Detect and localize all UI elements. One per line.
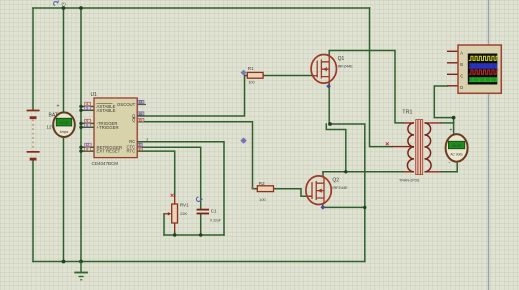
- svg-text:0.22uF: 0.22uF: [210, 219, 221, 223]
- resistor R2: [251, 181, 273, 202]
- wire secondary top to voltmeter: [441, 122, 454, 124]
- transformer TR1: [386, 110, 441, 183]
- svg-text:+0.00: +0.00: [59, 121, 68, 125]
- ammeter (battery current meter): [53, 104, 75, 138]
- wire left vertical (battery branch top): [32, 8, 34, 110]
- wire Q1 source to ground drop: [330, 124, 365, 262]
- wire U1 pin10 Q to R1: [137, 76, 247, 117]
- svg-text:9: 9: [86, 147, 88, 151]
- wire RV1 wiper down: [163, 214, 165, 235]
- svg-text:Q1: Q1: [338, 56, 345, 62]
- svg-text:8: 8: [86, 123, 88, 127]
- wire U1 pin11 Qbar to R2: [137, 122, 257, 189]
- wire Q1 drain to transformer primary top: [329, 51, 403, 123]
- svg-text:R1: R1: [248, 66, 254, 71]
- wire timing bottom rail: [164, 234, 224, 236]
- transistor Q2 IRFZ44E: [306, 176, 348, 210]
- wire RV1 bottom to rail: [174, 232, 176, 235]
- svg-text:100: 100: [259, 198, 265, 202]
- node marker (floating): [240, 137, 246, 143]
- sheet border (right edge): [488, 0, 490, 290]
- svg-text:OSCOUT: OSCOUT: [117, 102, 136, 107]
- svg-text:D: D: [460, 85, 463, 90]
- svg-text:Amps: Amps: [60, 130, 69, 134]
- svg-text:3: 3: [146, 138, 148, 142]
- wire U1 pin3 RC to timing rail: [137, 142, 224, 235]
- svg-text:22K: 22K: [180, 212, 187, 216]
- wire left vertical (battery branch bottom): [32, 160, 34, 262]
- svg-text:RV1: RV1: [180, 203, 189, 208]
- svg-text:+TRIGGER: +TRIGGER: [97, 125, 119, 130]
- ground: [74, 262, 88, 281]
- svg-text:AC Volts: AC Volts: [450, 152, 463, 156]
- wire voltmeter top: [453, 118, 455, 133]
- wire ammeter branch bottom: [63, 136, 65, 262]
- svg-text:C: C: [460, 73, 463, 78]
- wire Q2 drain riser: [322, 172, 324, 177]
- wire Q1 source down: [328, 83, 330, 124]
- voltmeter AC volts: [446, 128, 468, 166]
- svg-text:RTC: RTC: [127, 149, 136, 154]
- potentiometer RV1: [164, 194, 189, 233]
- wire scope channel D: [434, 86, 453, 118]
- svg-text:CD4047BCM: CD4047BCM: [92, 161, 119, 166]
- wire voltmeter bottom: [456, 164, 458, 172]
- svg-text:RC: RC: [129, 139, 135, 144]
- transistor Q1 IRFZ44E: [311, 55, 353, 89]
- svg-text:IRFZ44E: IRFZ44E: [338, 65, 354, 69]
- svg-text:+: +: [57, 104, 60, 110]
- svg-text:+: +: [450, 128, 453, 134]
- wire center-tap +12V drop: [370, 8, 393, 147]
- resistor R1: [247, 66, 263, 84]
- battery BAT1: [27, 110, 61, 161]
- svg-text:TRAN-2P3S: TRAN-2P3S: [399, 179, 420, 183]
- svg-text:2: 2: [139, 147, 141, 151]
- svg-text:+0.00: +0.00: [452, 144, 461, 148]
- svg-text:(*): (*): [62, 1, 67, 6]
- wire Q2 source to ground drop: [323, 204, 365, 207]
- wire jog to primary bottom: [326, 124, 346, 172]
- wire R2 to Q2 gate: [274, 189, 312, 197]
- voltage probe at C1 top: [196, 197, 202, 201]
- node marker at R1 input: [241, 70, 247, 76]
- wire top +12V rail: [33, 7, 370, 9]
- wire ammeter branch top: [63, 8, 65, 114]
- wire U1 pin stubs to bus: [81, 107, 94, 152]
- svg-text:11: 11: [139, 118, 143, 122]
- wire primary bottom rail: [323, 171, 403, 173]
- svg-text:B: B: [460, 62, 463, 67]
- svg-text:A: A: [460, 50, 463, 55]
- U1 right pin numbers 13 10 11 3 1 2: [138, 100, 149, 151]
- svg-text:EXT RESET: EXT RESET: [97, 149, 121, 154]
- capacitor C1: [197, 209, 221, 223]
- wire R1 to Q1 gate: [263, 75, 313, 77]
- U1 left pin numbers 4 5 6 8 12 9: [85, 102, 92, 151]
- svg-text:IRFZ44E: IRFZ44E: [332, 186, 348, 190]
- svg-text:R2: R2: [259, 181, 265, 186]
- wire C1 bottom to rail: [200, 214, 202, 235]
- svg-text:13: 13: [139, 100, 143, 104]
- svg-text:10: 10: [139, 112, 143, 116]
- svg-text:Q2: Q2: [332, 178, 339, 184]
- svg-text:TR1: TR1: [402, 110, 412, 116]
- power flag top-left: [54, 1, 67, 6]
- wire U1 pin1 CTC to C1: [137, 147, 201, 209]
- wire bottom ground rail: [33, 261, 365, 263]
- svg-text:C1: C1: [211, 209, 217, 214]
- oscilloscope: [447, 45, 501, 93]
- svg-text:U1: U1: [91, 92, 98, 98]
- U1 pin13 stub: [137, 104, 146, 106]
- wire secondary bottom to voltmeter: [441, 171, 457, 173]
- svg-text:ASTABLE: ASTABLE: [97, 108, 116, 113]
- wire U1 left pins vertical bus: [80, 8, 82, 262]
- svg-text:100: 100: [248, 81, 254, 85]
- wire U1 pin2 RTC to RV1: [137, 151, 175, 195]
- svg-text:5: 5: [86, 106, 88, 110]
- op-amp U1 CD4047BCM body: [91, 92, 138, 166]
